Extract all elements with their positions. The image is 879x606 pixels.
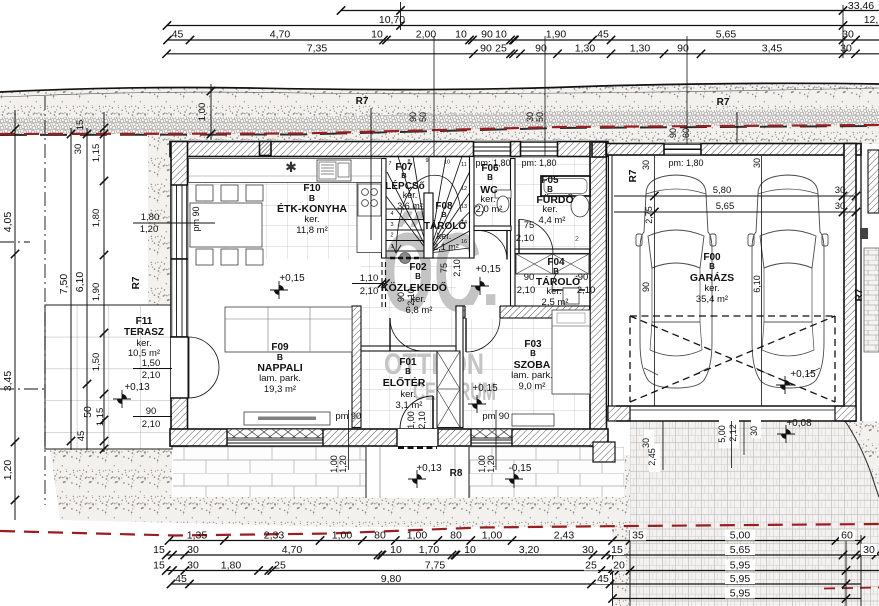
svg-text:2,10: 2,10 bbox=[142, 419, 161, 430]
svg-text:30: 30 bbox=[752, 158, 762, 168]
dining table bbox=[190, 203, 262, 247]
svg-text:45: 45 bbox=[172, 29, 184, 41]
bottom dimension chain lines bbox=[166, 541, 879, 599]
pebble strip above red line bbox=[0, 109, 879, 134]
f04 shelves with X bbox=[516, 254, 589, 274]
svg-text:90: 90 bbox=[408, 112, 418, 122]
svg-text:60: 60 bbox=[841, 530, 853, 542]
svg-text:5,95: 5,95 bbox=[730, 560, 751, 572]
bath bottom wall bbox=[515, 249, 590, 254]
neighbour wall right edge bbox=[860, 144, 862, 421]
house outer wall: top bbox=[170, 142, 608, 157]
svg-text:90: 90 bbox=[641, 282, 651, 292]
svg-text:2,75: 2,75 bbox=[644, 206, 654, 224]
vertical axis dash-dot bbox=[44, 96, 46, 505]
watermark logo bbox=[382, 210, 500, 406]
svg-text:12: 12 bbox=[461, 186, 467, 192]
house outer wall: left bbox=[171, 142, 188, 447]
svg-text:9,0 m²: 9,0 m² bbox=[519, 381, 546, 392]
svg-text:19,3 m²: 19,3 m² bbox=[264, 384, 296, 395]
stair left wall bbox=[382, 159, 387, 259]
svg-text:ELŐTÉR: ELŐTÉR bbox=[383, 376, 426, 389]
svg-text:2,33: 2,33 bbox=[264, 530, 285, 542]
svg-text:11,8 m²: 11,8 m² bbox=[296, 225, 328, 236]
svg-text:5,65: 5,65 bbox=[716, 201, 735, 212]
svg-text:lam. park.: lam. park. bbox=[259, 373, 301, 384]
svg-text:2,45: 2,45 bbox=[647, 448, 657, 466]
svg-text:3,45: 3,45 bbox=[762, 42, 783, 54]
horizontal axis dash-dot at terrace bbox=[0, 388, 46, 390]
svg-text:B: B bbox=[487, 173, 493, 182]
svg-text:2,10: 2,10 bbox=[452, 259, 462, 277]
entrance walkway bbox=[366, 447, 469, 498]
kitchen counter right leg bbox=[357, 183, 382, 253]
wc bottom wall bbox=[474, 226, 511, 231]
horizontal axis tick left bbox=[0, 241, 30, 243]
svg-text:R7: R7 bbox=[356, 96, 369, 107]
svg-text:7: 7 bbox=[388, 161, 391, 167]
svg-text:7,75: 7,75 bbox=[425, 560, 446, 572]
svg-text:10,70: 10,70 bbox=[379, 14, 405, 26]
svg-text:2,1 m²: 2,1 m² bbox=[433, 242, 459, 252]
terrace door opening bbox=[171, 337, 188, 398]
stipple band below pavement bbox=[340, 497, 624, 527]
svg-text:25: 25 bbox=[274, 560, 286, 572]
svg-text:R7: R7 bbox=[717, 97, 730, 108]
entrance threshold dashes bbox=[398, 446, 437, 449]
f04 door bbox=[552, 257, 585, 290]
garage front wall stubs bbox=[608, 406, 630, 421]
svg-text:10: 10 bbox=[390, 544, 402, 556]
svg-text:30: 30 bbox=[187, 544, 199, 556]
sink unit bbox=[317, 160, 351, 181]
stipple wedge right of curve bbox=[845, 421, 879, 497]
svg-text:7,35: 7,35 bbox=[307, 42, 328, 54]
svg-text:ker.: ker. bbox=[437, 231, 452, 241]
washbasin bath bbox=[571, 195, 589, 217]
kitchen-corridor opening dashed bbox=[381, 262, 383, 307]
svg-text:45: 45 bbox=[597, 573, 609, 585]
svg-text:+0,15: +0,15 bbox=[790, 369, 816, 380]
svg-text:6,10: 6,10 bbox=[752, 275, 762, 293]
svg-text:30: 30 bbox=[641, 438, 651, 448]
svg-text:2,10: 2,10 bbox=[142, 370, 161, 381]
svg-text:+0,13: +0,13 bbox=[416, 463, 442, 474]
svg-text:3,1 m²: 3,1 m² bbox=[396, 400, 423, 411]
svg-text:B: B bbox=[401, 171, 407, 180]
neighbour paving bbox=[864, 248, 879, 352]
svg-text:pm: 1,80: pm: 1,80 bbox=[475, 158, 510, 168]
svg-text:90: 90 bbox=[668, 128, 678, 138]
kitchen window left wall bbox=[171, 185, 188, 259]
eloter floor grid bbox=[361, 351, 437, 428]
stipple strip below garage left bbox=[612, 455, 630, 606]
left chain detail bbox=[103, 112, 105, 452]
svg-text:B: B bbox=[277, 352, 283, 362]
svg-text:45: 45 bbox=[597, 29, 609, 41]
svg-text:30: 30 bbox=[641, 160, 651, 170]
chairs top row bbox=[196, 185, 213, 201]
svg-text:5,65: 5,65 bbox=[730, 544, 751, 556]
svg-text:5,80: 5,80 bbox=[713, 185, 732, 196]
svg-text:1,00: 1,00 bbox=[407, 530, 428, 542]
svg-text:90: 90 bbox=[351, 411, 362, 422]
top chain boundary verticals bbox=[400, 2, 402, 30]
svg-text:2,10: 2,10 bbox=[406, 288, 416, 306]
staircase treads lower flight bbox=[386, 209, 470, 258]
svg-text:15: 15 bbox=[75, 120, 86, 131]
svg-text:1,90: 1,90 bbox=[91, 283, 102, 302]
pillar below house SE corner bbox=[593, 442, 615, 462]
pavement tiles below house bbox=[173, 447, 624, 497]
top chain ticks row1-2 bbox=[337, 6, 345, 14]
bath window top wall bbox=[521, 142, 558, 157]
left chain 7,50 bbox=[70, 128, 72, 450]
red dashed line bottom bbox=[0, 524, 879, 536]
dim 1,00 top left of house bbox=[210, 84, 212, 140]
svg-text:1,50: 1,50 bbox=[91, 353, 102, 372]
stair spine wall bbox=[424, 193, 433, 258]
svg-text:30: 30 bbox=[187, 560, 199, 572]
top dimension chain lines bbox=[166, 11, 879, 54]
bath door bbox=[519, 220, 553, 254]
svg-text:pm: pm bbox=[482, 411, 495, 422]
car 1 in garage bbox=[636, 175, 716, 388]
car 2 in garage bbox=[748, 175, 828, 388]
svg-text:pm: 1,80: pm: 1,80 bbox=[521, 158, 556, 168]
toilet wc bbox=[495, 190, 511, 198]
svg-text:1,50: 1,50 bbox=[142, 358, 161, 369]
svg-text:30: 30 bbox=[73, 144, 84, 155]
bottom chain ticks row1 bbox=[165, 536, 173, 544]
garage dims bbox=[614, 195, 856, 197]
svg-text:15: 15 bbox=[153, 560, 165, 572]
storage F04 floor grid bbox=[515, 254, 590, 306]
svg-text:80: 80 bbox=[450, 530, 462, 542]
top chain ticks row3 bbox=[163, 36, 171, 44]
svg-text:5,95: 5,95 bbox=[730, 573, 751, 585]
svg-text:1,30: 1,30 bbox=[630, 42, 651, 54]
svg-text:+0,13: +0,13 bbox=[124, 382, 150, 393]
stair step numbers bbox=[388, 158, 467, 250]
svg-text:R7: R7 bbox=[131, 276, 142, 289]
svg-text:11: 11 bbox=[461, 162, 467, 168]
garage door dashed swing bbox=[630, 316, 835, 402]
terrace double door leaves bbox=[189, 337, 220, 398]
svg-text:3,45: 3,45 bbox=[2, 371, 14, 392]
wc window top wall bbox=[474, 142, 511, 157]
column in top wall bbox=[260, 142, 272, 156]
svg-text:12,: 12, bbox=[864, 14, 879, 26]
stair bottom opening dashes bbox=[390, 257, 422, 260]
bottom chain ticks row5 bbox=[608, 594, 616, 602]
left chain line 1 bbox=[14, 110, 16, 520]
left chain 6,10 bbox=[86, 128, 88, 450]
svg-text:4,4 m²: 4,4 m² bbox=[539, 215, 566, 226]
svg-text:4,05: 4,05 bbox=[2, 212, 14, 233]
szoba floor grid bbox=[463, 318, 590, 428]
svg-text:20: 20 bbox=[613, 560, 625, 572]
stair/wc wall bbox=[470, 157, 475, 259]
black boundary line under red top bbox=[0, 126, 879, 135]
svg-text:45: 45 bbox=[175, 573, 187, 585]
svg-text:✱: ✱ bbox=[285, 159, 297, 175]
svg-text:13: 13 bbox=[461, 204, 467, 210]
svg-text:1,00: 1,00 bbox=[197, 103, 208, 122]
svg-text:9: 9 bbox=[425, 158, 428, 164]
stipple strip left of house wall bbox=[148, 134, 170, 305]
svg-text:ker.: ker. bbox=[400, 389, 415, 400]
sofa nappali bbox=[225, 307, 352, 352]
svg-text:30: 30 bbox=[749, 426, 759, 436]
bottom chain ticks row3 bbox=[162, 566, 170, 574]
svg-text:25: 25 bbox=[585, 560, 597, 572]
svg-text:TERASZ: TERASZ bbox=[124, 327, 164, 338]
svg-text:10: 10 bbox=[444, 160, 450, 166]
svg-text:B: B bbox=[441, 210, 447, 219]
column at house/garage junction bbox=[592, 142, 606, 157]
svg-text:30: 30 bbox=[840, 42, 852, 54]
tv sideboard bbox=[244, 412, 330, 425]
house outer wall: bottom bbox=[170, 429, 608, 446]
svg-text:3: 3 bbox=[390, 222, 393, 228]
svg-text:2,00: 2,00 bbox=[416, 29, 437, 41]
svg-text:90: 90 bbox=[481, 29, 493, 41]
svg-text:3,6 m²: 3,6 m² bbox=[397, 201, 423, 211]
svg-text:2,10: 2,10 bbox=[417, 411, 427, 429]
svg-text:1,80: 1,80 bbox=[91, 209, 102, 228]
svg-text:30: 30 bbox=[835, 185, 846, 196]
svg-text:1,80: 1,80 bbox=[141, 212, 160, 223]
svg-text:4: 4 bbox=[390, 211, 393, 217]
svg-text:2,43: 2,43 bbox=[554, 530, 575, 542]
garage wall: top bbox=[607, 144, 862, 156]
svg-text:B: B bbox=[553, 267, 559, 276]
bottom chain ticks row2 bbox=[162, 551, 170, 559]
svg-text:75: 75 bbox=[439, 263, 449, 273]
garage back door opening bbox=[664, 144, 701, 156]
svg-text:1,00: 1,00 bbox=[406, 411, 416, 429]
svg-text:2,10: 2,10 bbox=[516, 233, 535, 244]
svg-text:1,20: 1,20 bbox=[140, 224, 159, 235]
bed in szoba bbox=[552, 310, 590, 394]
szoba door bbox=[466, 318, 500, 352]
svg-text:33,46: 33,46 bbox=[848, 0, 874, 12]
svg-text:10: 10 bbox=[495, 29, 507, 41]
svg-text:80: 80 bbox=[374, 530, 386, 542]
svg-text:B: B bbox=[547, 185, 553, 194]
wardrobe x-strip bbox=[437, 351, 460, 428]
bath floor grid bbox=[515, 158, 590, 249]
red dashed line top bbox=[0, 125, 879, 134]
svg-text:30: 30 bbox=[835, 201, 846, 212]
garage wall: right bbox=[844, 144, 856, 422]
svg-text:30: 30 bbox=[582, 544, 594, 556]
bathtub bbox=[541, 176, 590, 196]
svg-text:B: B bbox=[709, 262, 715, 271]
svg-text:ker.: ker. bbox=[546, 286, 561, 297]
stove 4 rings bbox=[358, 184, 381, 216]
svg-text:B: B bbox=[530, 349, 536, 358]
svg-text:2,5 m²: 2,5 m² bbox=[542, 297, 569, 308]
svg-text:1,00: 1,00 bbox=[482, 530, 503, 542]
svg-text:+0,15: +0,15 bbox=[279, 273, 305, 284]
wc floor grid bbox=[474, 158, 511, 226]
svg-text:1,15: 1,15 bbox=[91, 144, 102, 163]
svg-text:10: 10 bbox=[371, 29, 383, 41]
svg-text:pm: 1,80: pm: 1,80 bbox=[668, 158, 703, 168]
svg-text:90: 90 bbox=[524, 272, 535, 283]
red dashed fragment bottom right bbox=[824, 588, 879, 589]
svg-text:R7: R7 bbox=[854, 288, 865, 301]
svg-text:10: 10 bbox=[455, 29, 467, 41]
terrain stipple band top bbox=[0, 83, 879, 144]
top chain texts bbox=[172, 0, 879, 54]
svg-text:30: 30 bbox=[525, 112, 535, 122]
svg-text:5,00: 5,00 bbox=[730, 530, 751, 542]
svg-text:35: 35 bbox=[632, 530, 644, 542]
svg-text:2: 2 bbox=[390, 233, 393, 239]
svg-text:4,70: 4,70 bbox=[282, 544, 303, 556]
left window dim bbox=[133, 222, 215, 224]
svg-text:1,20: 1,20 bbox=[2, 460, 14, 481]
entrance door opening bottom wall bbox=[397, 429, 438, 446]
svg-text:45: 45 bbox=[76, 431, 87, 442]
svg-text:R8: R8 bbox=[450, 468, 463, 479]
svg-text:2,10: 2,10 bbox=[360, 286, 379, 297]
svg-text:ker.: ker. bbox=[304, 214, 319, 225]
svg-text:5,65: 5,65 bbox=[716, 29, 737, 41]
svg-text:60: 60 bbox=[681, 128, 691, 138]
house outer wall: right bbox=[590, 142, 607, 447]
top chain ticks row4 bbox=[162, 50, 170, 58]
stair newel dot bbox=[400, 253, 411, 264]
svg-text:25: 25 bbox=[495, 42, 507, 54]
bottom chain verticals bbox=[612, 545, 614, 606]
svg-text:35,4 m²: 35,4 m² bbox=[696, 294, 728, 305]
svg-text:1,35: 1,35 bbox=[187, 530, 208, 542]
driveway paver area bbox=[630, 421, 879, 606]
svg-text:2,10: 2,10 bbox=[517, 285, 536, 296]
svg-text:1,30: 1,30 bbox=[575, 42, 596, 54]
svg-text:6,10: 6,10 bbox=[74, 272, 86, 293]
bottom chain texts halo bbox=[630, 530, 646, 541]
svg-text:90: 90 bbox=[578, 272, 589, 283]
terrain top wavy edge line bbox=[0, 83, 879, 92]
svg-text:50: 50 bbox=[418, 112, 428, 122]
wc small sink bbox=[475, 204, 484, 216]
svg-text:5,95: 5,95 bbox=[730, 588, 751, 600]
kitchen floor grid bbox=[189, 158, 382, 259]
szoba window bottom wall bbox=[471, 429, 512, 446]
svg-text:15: 15 bbox=[153, 544, 165, 556]
svg-text:pm 90: pm 90 bbox=[191, 206, 201, 231]
svg-text:-0,15: -0,15 bbox=[509, 463, 532, 474]
svg-text:1,90: 1,90 bbox=[546, 29, 567, 41]
kitchen counter top bbox=[189, 159, 382, 183]
staircase fan steps bbox=[386, 157, 470, 254]
svg-text:B: B bbox=[405, 367, 411, 376]
svg-text:90: 90 bbox=[396, 292, 406, 302]
svg-text:+0,15: +0,15 bbox=[472, 383, 498, 394]
svg-text:F11: F11 bbox=[136, 316, 153, 327]
svg-text:90: 90 bbox=[146, 406, 157, 417]
svg-text:2,12: 2,12 bbox=[728, 424, 738, 442]
stair walking line arc bbox=[396, 175, 461, 251]
svg-text:1,10: 1,10 bbox=[360, 273, 379, 284]
svg-text:1,00: 1,00 bbox=[332, 530, 353, 542]
svg-text:+0,08: +0,08 bbox=[786, 418, 812, 429]
svg-text:4,70: 4,70 bbox=[270, 29, 291, 41]
eloter door from corridor bbox=[390, 318, 423, 351]
svg-text:1,80: 1,80 bbox=[221, 560, 242, 572]
wc door bbox=[478, 231, 507, 260]
svg-text:lam. park.: lam. park. bbox=[511, 370, 553, 381]
svg-text:5,00: 5,00 bbox=[717, 425, 727, 443]
stipple below terrace bbox=[50, 449, 340, 527]
svg-text:75: 75 bbox=[524, 220, 535, 231]
svg-text:50: 50 bbox=[82, 406, 94, 418]
svg-text:50: 50 bbox=[535, 112, 545, 122]
nappali window bottom wall bbox=[227, 429, 323, 446]
svg-text:30: 30 bbox=[863, 544, 875, 556]
svg-text:B: B bbox=[415, 272, 421, 281]
corridor floor grid bbox=[361, 259, 456, 346]
svg-text:ker.: ker. bbox=[542, 204, 557, 215]
svg-text:B: B bbox=[309, 193, 315, 203]
garage door sill lines bbox=[616, 405, 845, 407]
svg-text:16: 16 bbox=[461, 239, 467, 245]
nappali/eloter wall bbox=[352, 306, 361, 428]
terrace door dim bbox=[133, 368, 172, 370]
svg-text:1,20: 1,20 bbox=[338, 455, 348, 473]
chairs bottom row bbox=[196, 249, 213, 265]
svg-text:3,20: 3,20 bbox=[519, 544, 540, 556]
svg-text:1,70: 1,70 bbox=[419, 544, 440, 556]
wc/bath wall bbox=[511, 159, 516, 307]
svg-text:15: 15 bbox=[611, 544, 623, 556]
svg-text:1,20: 1,20 bbox=[486, 455, 496, 473]
svg-text:90: 90 bbox=[480, 42, 492, 54]
washing machine bbox=[563, 288, 579, 304]
svg-text:R7: R7 bbox=[628, 169, 639, 182]
eloter top wall bbox=[361, 346, 456, 351]
bench under szoba window bbox=[512, 414, 554, 426]
szoba left wall bbox=[456, 306, 463, 428]
stair spine wall bbox=[424, 193, 433, 258]
svg-text:2,0 m²: 2,0 m² bbox=[476, 204, 503, 215]
svg-text:1: 1 bbox=[390, 244, 393, 250]
svg-text:2,10: 2,10 bbox=[577, 285, 596, 296]
svg-text:+0,15: +0,15 bbox=[475, 264, 501, 275]
svg-text:ker.: ker. bbox=[403, 190, 418, 200]
svg-text:90: 90 bbox=[499, 411, 510, 422]
svg-text:10: 10 bbox=[464, 544, 476, 556]
entrance door leaf bbox=[400, 396, 433, 429]
svg-text:ker.: ker. bbox=[704, 283, 719, 294]
kitchen opening dim bbox=[352, 283, 386, 285]
bottom chain ticks row4 bbox=[167, 580, 175, 588]
szoba top wall bbox=[456, 306, 590, 318]
svg-text:1,15: 1,15 bbox=[95, 408, 106, 427]
svg-text:7,50: 7,50 bbox=[58, 274, 70, 295]
svg-text:pm: pm bbox=[335, 411, 348, 422]
svg-text:2: 2 bbox=[575, 236, 579, 243]
terrace tiles F11 bbox=[45, 305, 172, 449]
svg-text:30: 30 bbox=[842, 29, 854, 41]
bottom chain texts bbox=[153, 530, 875, 600]
nappali side window left wall lower bbox=[171, 259, 188, 337]
